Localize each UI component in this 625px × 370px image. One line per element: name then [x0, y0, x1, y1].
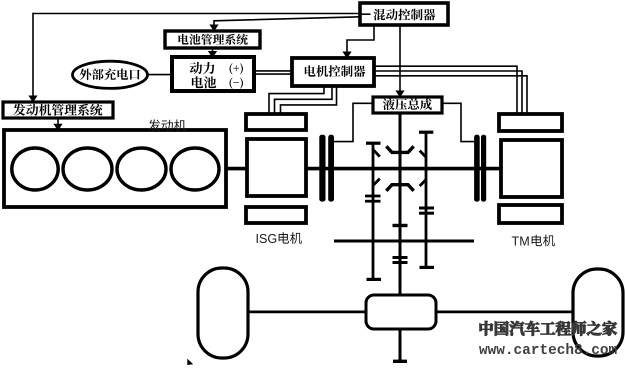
tick below differential — [393, 360, 407, 363]
wire motor controller to ISG motor 2 — [275, 86, 333, 114]
wire motor controller to ISG motor 3 — [281, 86, 337, 114]
TM motor bottom bar — [499, 205, 562, 223]
label ISG电机 (CJK part) — [279, 232, 302, 244]
right clutch bar 2 — [481, 135, 486, 202]
left gear synchronizer double bar — [365, 195, 381, 198]
gearbox output shaft (second horizontal) — [334, 240, 474, 243]
left wheel — [198, 268, 248, 358]
center shaft synchronizer double bar — [393, 256, 408, 259]
shaft below differential — [399, 329, 402, 361]
TM motor body — [501, 140, 562, 197]
right gear shaft vertical — [425, 132, 428, 268]
label 液压总成 — [383, 98, 432, 110]
svg-text:ISG: ISG — [256, 232, 278, 246]
wire motor controller to ISG motor 1 — [269, 86, 324, 114]
left gear shaft bottom tick — [367, 278, 382, 281]
gearbox center vertical shaft to differential — [399, 113, 402, 295]
mouse cursor arrow — [187, 359, 193, 365]
right gear shaft bottom tick — [420, 266, 435, 269]
left gear mesh mark upper — [373, 150, 380, 157]
wire battery management system to power battery — [212, 48, 214, 52]
engine cylinder 4 — [171, 148, 219, 190]
ISG motor top bar — [246, 114, 306, 130]
left gear shaft vertical — [372, 143, 375, 280]
differential box — [366, 295, 436, 329]
wire from hybrid controller to engine management (top horizontal) — [33, 13, 360, 15]
right gear shaft top tick — [419, 131, 433, 134]
arrowhead into power battery box — [208, 51, 217, 58]
wire motor controller to TM motor 3 — [374, 76, 527, 114]
engine block box — [4, 130, 226, 207]
wire hydraulic unit to right clutch — [442, 103, 477, 141]
wire stub inside hybrid controller box — [360, 13, 371, 15]
arrowhead into motor controller box — [342, 52, 351, 59]
engine cylinder 3 — [117, 148, 166, 190]
double wire power battery to motor controller — [254, 70, 292, 72]
external charge port ellipse 外部充电口 — [73, 61, 148, 88]
wire hybrid controller to hydraulic unit (vertical) — [399, 25, 401, 91]
label 电池管理系统 — [179, 34, 248, 45]
label 动力 — [190, 62, 215, 74]
right gear mesh mark upper — [420, 151, 427, 158]
arrowhead into engine management system box — [28, 96, 37, 103]
hydraulic unit box 液压总成 — [373, 97, 442, 113]
label 混动控制器 — [373, 9, 435, 21]
label TM电机 (CJK part) — [532, 235, 555, 247]
arrowhead into engine block — [53, 124, 62, 131]
arrowhead into battery management system box — [209, 25, 218, 32]
right axle — [436, 310, 573, 313]
main input shaft (engine-ISG-gearbox-TM) — [226, 167, 501, 171]
label 发动机 — [148, 119, 186, 131]
left axle — [248, 310, 366, 313]
engine cylinder 1 — [12, 148, 58, 190]
center shaft tick — [393, 224, 408, 227]
svg-text:TM: TM — [512, 234, 530, 248]
ISG motor body — [247, 139, 306, 196]
right gear synchronizer double bar — [419, 207, 434, 210]
engine management box 发动机管理系统 — [3, 102, 113, 118]
label 外部充电口 — [80, 69, 140, 81]
planetary upper cup — [386, 146, 413, 152]
motor controller box 电机控制器 — [292, 58, 374, 86]
left gear shaft top tick — [366, 142, 381, 145]
TM motor top bar — [499, 114, 562, 131]
label 电池 — [192, 76, 216, 88]
left clutch bar 2 — [328, 135, 334, 202]
power battery box 动力电池 — [172, 57, 254, 91]
battery management box 电池管理系统 — [165, 31, 260, 48]
hybrid controller box 混动控制器 — [360, 3, 448, 25]
wire external charge port to power battery — [146, 74, 172, 76]
label 发动机管理系统 — [13, 104, 102, 116]
label (-) — [230, 78, 244, 89]
wire motor controller to TM motor 1 — [374, 66, 517, 114]
wire hybrid controller to motor controller (bent) — [347, 25, 374, 53]
ISG motor bottom bar — [246, 207, 306, 223]
arrowhead into hydraulic unit box — [395, 91, 404, 98]
planetary lower cup — [386, 185, 413, 191]
wire vertical segment down to engine management system — [32, 13, 34, 96]
right wheel — [573, 269, 623, 356]
wire motor controller to TM motor 2 — [374, 71, 522, 114]
wire engine management to engine block — [57, 118, 59, 125]
left clutch bar 1 — [319, 135, 325, 202]
wire from hybrid controller to battery management system — [214, 17, 360, 25]
engine cylinder 2 — [63, 148, 112, 190]
watermark 中国汽车工程师之家 — [480, 321, 617, 336]
svg-text:www.cartech8.com: www.cartech8.com — [479, 343, 618, 359]
left gear mesh mark lower — [373, 179, 380, 186]
right clutch bar 1 — [474, 135, 480, 202]
right gear mesh mark lower — [420, 179, 427, 186]
label 电机控制器 — [305, 65, 366, 77]
wire hydraulic unit to left clutch — [334, 103, 373, 141]
label (+) — [230, 63, 244, 74]
